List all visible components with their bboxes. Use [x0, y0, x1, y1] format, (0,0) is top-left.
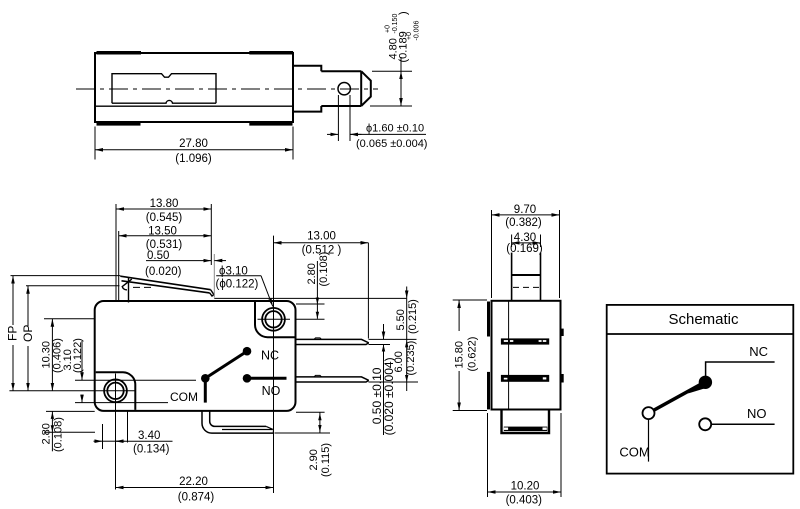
lever free-position reference line: [214, 297, 406, 299]
COM bar notches: [504, 428, 508, 430]
COM terminal L-shape inner edge: [210, 411, 267, 426]
dimension dia 1.60 arrows: [327, 133, 338, 135]
svg-text:(0.020): (0.020): [145, 266, 182, 278]
svg-text:10.20: 10.20: [511, 481, 540, 493]
svg-text:(0.122): (0.122): [72, 338, 84, 373]
plunger shaft top edge: [321, 70, 361, 72]
plunger shaft bottom edge: [321, 105, 361, 107]
dimension 9.70 line: [492, 214, 560, 216]
contact wedge: [688, 381, 706, 394]
COM terminal bar (side): [504, 427, 548, 431]
svg-text:+0: +0: [385, 25, 392, 33]
dimension 9.70 extension lines: [491, 210, 493, 298]
svg-text:-0.006: -0.006: [414, 21, 421, 41]
NO wire: [711, 423, 774, 425]
COM terminal tip: [222, 426, 273, 433]
svg-text:(0.235): (0.235): [405, 341, 417, 376]
svg-text:13.00: 13.00: [307, 231, 336, 243]
dimension 10.20 line: [488, 491, 562, 493]
dimension 0.50 terminal thickness line: [383, 324, 385, 339]
NC bar notches: [504, 340, 508, 342]
dimension 6.00 line: [406, 339, 408, 382]
svg-text:(0.115): (0.115): [320, 443, 332, 477]
COM bottom edge extension to left: [44, 431, 95, 433]
svg-text:0.50: 0.50: [147, 250, 169, 262]
dimension 4.80 extension lines: [372, 70, 412, 72]
NC contact dot: [243, 347, 252, 356]
svg-text:13.50: 13.50: [148, 225, 177, 237]
body seam line: [508, 301, 510, 410]
OP dimension line (broken by text): [27, 286, 29, 326]
switch body (front view outline): [95, 301, 296, 411]
dimension 3.10 extension line upper: [75, 379, 196, 381]
dimension 10.20 extension lines: [487, 413, 489, 497]
dimension 5.50 line with outside arrows: [406, 287, 408, 299]
NC terminal blade: [296, 339, 369, 344]
svg-text:(0.215): (0.215): [407, 299, 419, 334]
svg-text:+0: +0: [406, 32, 413, 40]
svg-text:(1.096): (1.096): [175, 153, 212, 165]
svg-text:4.30: 4.30: [514, 232, 536, 244]
svg-text:2.90: 2.90: [308, 449, 320, 470]
svg-text:(0.622): (0.622): [467, 337, 479, 372]
dimension 3.40 arrows: [94, 440, 103, 442]
NC contact dot: [699, 376, 712, 389]
svg-text:13.80: 13.80: [150, 198, 179, 210]
schematic title separator: [607, 333, 794, 335]
dimension 13.50 line: [119, 235, 212, 237]
svg-text:(0.134): (0.134): [133, 444, 170, 456]
NO contact circle: [699, 418, 711, 430]
mounting hole bottom-left inner: [107, 383, 123, 399]
svg-text:2.80: 2.80: [306, 263, 318, 284]
centre line (dash-dot): [76, 88, 378, 90]
boss top reference extension line: [296, 303, 325, 305]
svg-text:ϕ3.10: ϕ3.10: [219, 266, 248, 278]
body bottom extension to the right: [296, 411, 325, 413]
dimension 2.80 right line: [316, 261, 318, 319]
NO terminal bar (side): [501, 375, 549, 382]
dimension 13.00 line: [274, 242, 369, 244]
svg-text:ϕ1.60 ±0.10: ϕ1.60 ±0.10: [366, 123, 424, 135]
dimension 4.30 line with arrows: [512, 242, 541, 244]
FP extension line: [11, 275, 121, 277]
FP dimension line (broken by text): [12, 276, 14, 325]
dimension phi 3.10 leader arrow: [261, 276, 273, 307]
svg-text:9.70: 9.70: [514, 204, 536, 216]
dimension 3.10 line with arrows: [81, 341, 83, 380]
hole centre extension line to the left: [44, 318, 95, 320]
svg-text:Schematic: Schematic: [668, 311, 739, 328]
latch bump on cover bottom edge: [112, 100, 216, 103]
mounting boss around bottom-left hole: [96, 372, 136, 410]
NC blade top extension line: [369, 338, 417, 340]
COM terminal L-shape outer edge: [202, 411, 273, 433]
svg-text:FP: FP: [6, 326, 20, 341]
svg-text:(0.108): (0.108): [53, 417, 65, 452]
svg-text:22.20: 22.20: [179, 476, 208, 488]
svg-text:COM: COM: [170, 390, 198, 404]
lever arm bottom edge: [122, 281, 210, 293]
lever hinge hidden dashes: [133, 286, 153, 288]
svg-text:(0.531): (0.531): [146, 239, 183, 251]
NC terminal notch: [314, 338, 322, 340]
mounting boss around top-right hole: [255, 302, 295, 337]
dimension 27.80 extension lines: [94, 127, 96, 160]
hole centre extension line to the right: [296, 318, 325, 320]
left flange top tab: [487, 302, 490, 337]
dimension 10.30 line: [51, 319, 53, 391]
dimension 4.30 extension stubs: [511, 235, 513, 248]
dimension 13.80 line: [116, 208, 211, 210]
dimension 13.50 extension line: [118, 231, 120, 302]
bottom hole centre line horizontal: [9, 390, 135, 392]
mounting hole top-right outer: [262, 308, 285, 331]
NO contact stub line: [247, 377, 287, 380]
svg-text:3.40: 3.40: [138, 430, 160, 442]
svg-text:(0.108): (0.108): [318, 252, 330, 287]
svg-text:2.80: 2.80: [41, 423, 53, 444]
body mounting rib bottom-left: [97, 122, 141, 126]
dimension 2.90 line: [319, 412, 321, 433]
mounting hole top-right inner: [265, 311, 281, 327]
body bottom edge extension to left: [46, 410, 95, 412]
NO terminal blade: [296, 377, 369, 382]
NO blade bottom extension line: [369, 381, 419, 383]
NO terminal notch: [314, 375, 322, 377]
svg-text:NC: NC: [749, 344, 768, 359]
dimension 3.40 extension line left: [102, 424, 104, 449]
lever tip bend: [210, 290, 214, 296]
switch body (top view outline): [95, 53, 293, 122]
plunger step line: [512, 274, 541, 276]
dimension 3.40 shelf: [116, 440, 173, 442]
svg-text:(ϕ0.122): (ϕ0.122): [216, 279, 259, 291]
moving contact blade COM-NC: [205, 351, 247, 378]
bottom protrusion outline: [502, 410, 550, 434]
right bump at NO terminal: [561, 374, 564, 383]
svg-text:(0.874): (0.874): [178, 492, 215, 504]
hole centre mark horizontal (inside boss): [258, 318, 291, 320]
dimension 27.80 line: [95, 149, 293, 151]
plunger tip cap: [361, 71, 371, 106]
lever hinge curl: [122, 279, 132, 290]
plunger hidden hole line (dashed): [513, 286, 539, 288]
svg-text:NO: NO: [262, 384, 281, 398]
hole centre vertical line (13.00 / 22.20 reference): [273, 236, 275, 493]
dimension 15.80 extension lines: [453, 299, 487, 301]
svg-text:(0.169): (0.169): [506, 243, 543, 255]
dimension 3.10 extension line lower: [75, 402, 168, 404]
plunger sides: [511, 253, 513, 301]
OP extension line: [26, 285, 120, 287]
plunger cross hole: [338, 83, 350, 95]
svg-text:COM: COM: [619, 445, 649, 460]
svg-text:NO: NO: [747, 406, 767, 421]
dimension 0.50 line and arrows: [146, 260, 211, 262]
dimension 22.20 line: [116, 487, 274, 489]
dimension dia 1.60 shelf line: [350, 133, 426, 135]
svg-text:NC: NC: [261, 349, 279, 363]
body mounting rib top-left: [97, 51, 142, 55]
dimension 13.00 right extension line: [367, 243, 369, 339]
extra short extension line: [127, 411, 129, 442]
dimension 0.50 lever tip extension line: [213, 254, 215, 298]
body mounting rib top-right: [249, 51, 293, 55]
NO contact dot: [243, 374, 252, 383]
side body outline: [492, 301, 561, 410]
COM pivot circle: [643, 407, 655, 419]
svg-text:27.80: 27.80: [179, 138, 208, 150]
svg-text:): ): [397, 11, 409, 15]
lever hinge pin line: [128, 277, 130, 303]
COM pivot dot: [201, 374, 210, 383]
inner cover plate with latch notch: [112, 74, 216, 104]
svg-text:OP: OP: [21, 325, 35, 342]
svg-text:5.50: 5.50: [395, 309, 407, 330]
dimension 15.80 line (broken by text): [458, 300, 460, 331]
bottom hole centre vertical (3.40 / 22.20 reference): [115, 374, 117, 490]
dimension 4.80 line: [400, 71, 402, 106]
NC terminal bar (side): [501, 338, 549, 344]
NC wire: [706, 362, 775, 377]
svg-text:(0.065 ±0.004): (0.065 ±0.004): [356, 138, 427, 150]
body seam line: [95, 105, 293, 107]
lever arm top edge: [120, 276, 210, 290]
svg-text:(0.403): (0.403): [506, 495, 543, 507]
dimension phi 3.10 leader shelf: [216, 275, 261, 277]
body mounting rib bottom-right: [249, 122, 292, 126]
NC blade bottom extension line: [369, 344, 391, 346]
dimension dia 1.60 extension lines: [337, 95, 339, 141]
COM anchor arm: [204, 378, 207, 402]
dimension 13.80 extension lines: [115, 204, 117, 302]
svg-text:-0.150: -0.150: [392, 14, 399, 34]
right bump upper: [561, 329, 564, 336]
svg-text:(0.545): (0.545): [146, 212, 183, 224]
COM wire: [648, 419, 650, 461]
svg-text:(0.020 ±0.004): (0.020 ±0.004): [382, 357, 396, 435]
COM blade bottom extension to the right: [275, 432, 331, 434]
moving contact lever: [649, 383, 704, 413]
plunger collar: [293, 66, 321, 112]
svg-text:15.80: 15.80: [453, 341, 465, 369]
NO bar notches: [504, 378, 508, 380]
dimension 2.80 left line: [51, 411, 53, 451]
left flange bottom tab: [487, 372, 490, 410]
schematic box: [607, 305, 794, 474]
mounting hole bottom-left outer: [104, 379, 127, 402]
svg-text:(0.382): (0.382): [505, 217, 542, 229]
